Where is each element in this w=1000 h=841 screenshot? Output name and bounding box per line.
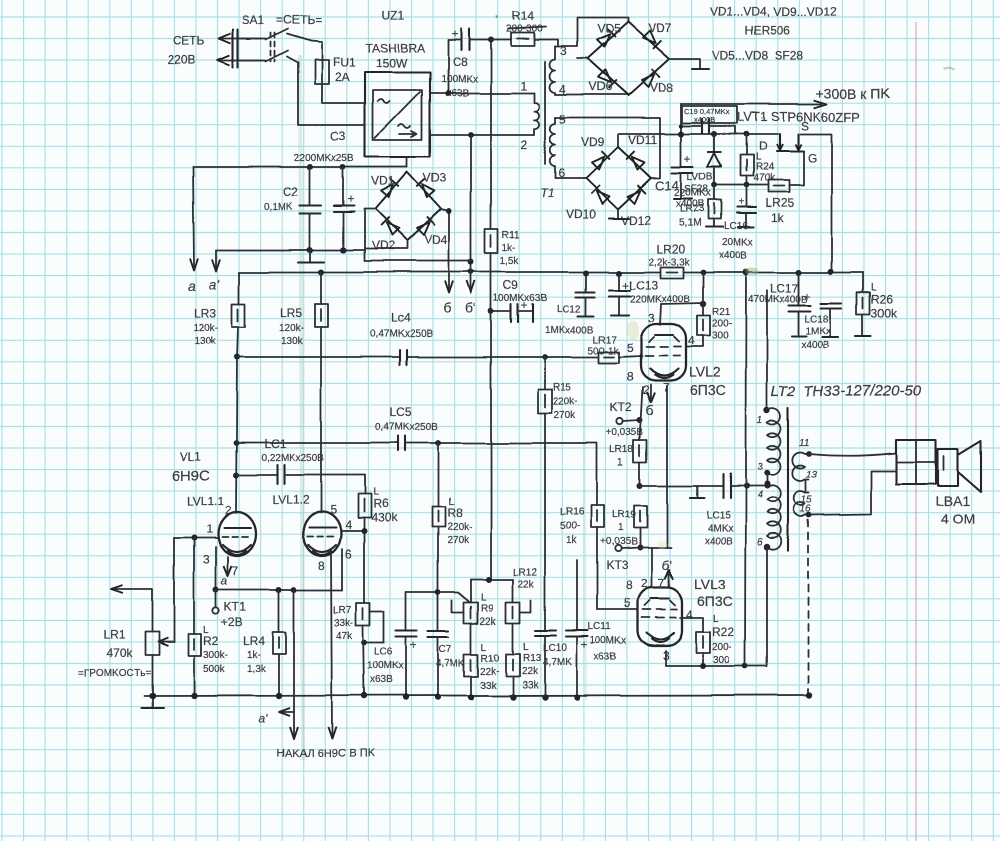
svg-text:+: + (684, 152, 691, 166)
rail node LR1 (149, 693, 155, 699)
svg-text:HAKAЛ 6H9C B ПK: HAKAЛ 6H9C B ПK (277, 748, 375, 760)
switch SA1 pole 1 (238, 29, 311, 41)
svg-text:R13: R13 (523, 653, 542, 664)
diode VD7 (642, 30, 661, 49)
svg-text:б': б' (465, 300, 476, 316)
svg-text:300: 300 (713, 655, 730, 666)
label C2 0,1мк (264, 185, 299, 213)
svg-text:1k: 1k (771, 211, 785, 225)
label LR23 5,1М (679, 204, 704, 229)
capacitor LC16 electrolytic (737, 185, 756, 227)
resistor R14 (511, 33, 534, 46)
svg-text:=СЕТЬ=: =СЕТЬ= (276, 13, 322, 27)
svg-text:LC5: LC5 (390, 405, 412, 419)
switch SA1 pole 2 (238, 51, 298, 63)
B+ vertical to y666 (745, 272, 746, 666)
resistor LR16 (591, 506, 604, 610)
svg-text:0,47MKx250B: 0,47MKx250B (375, 422, 438, 433)
label R26 300к (871, 282, 898, 320)
wire T1 pin5 to VD9-12 right (555, 118, 660, 178)
svg-text:100MKx: 100MKx (367, 661, 404, 672)
svg-text:1k-: 1k- (247, 650, 261, 661)
svg-text:C7: C7 (439, 644, 452, 655)
svg-text:LR19: LR19 (612, 510, 636, 521)
svg-text:HER506: HER506 (745, 24, 791, 38)
mosfet LVT1 (776, 134, 804, 185)
label C7 4,7мк (436, 644, 465, 669)
speaker LBA1 (938, 441, 981, 492)
svg-text:T1: T1 (540, 186, 554, 200)
T1 secondary winding 3-4 (550, 47, 556, 95)
svg-text:2200MKx25B: 2200MKx25B (294, 153, 354, 164)
node filament A start (291, 587, 297, 593)
node LC1 junction (233, 472, 239, 478)
svg-text:6H9C: 6H9C (172, 467, 211, 484)
svg-text:LBA1: LBA1 (936, 493, 970, 509)
svg-text:VD10: VD10 (566, 207, 596, 221)
svg-text:SA1: SA1 (242, 13, 265, 27)
wire LVL3 pin2 (651, 548, 653, 588)
node C3 bottom (340, 247, 346, 253)
node rail LC13 (616, 270, 622, 276)
converter UZ1 box (365, 72, 430, 157)
tube LVL1.2 (303, 512, 341, 556)
svg-text:200-: 200- (712, 642, 732, 653)
capacitor LC15 (723, 474, 767, 498)
svg-text:200-: 200- (712, 319, 732, 330)
svg-text:16: 16 (800, 504, 812, 515)
svg-text:VD7: VD7 (648, 21, 672, 35)
label FU1 2A (333, 55, 356, 84)
label LC1 0,22мкх250В (261, 437, 324, 464)
wire y486 to LC15 (640, 485, 722, 487)
stub tap y486 (690, 486, 704, 498)
paper speck 3 (761, 117, 763, 119)
label LR20 2,2к-3,3к (648, 242, 690, 268)
svg-text:VD9: VD9 (581, 135, 605, 149)
svg-text:R8: R8 (447, 506, 463, 520)
label LC13 220мкх400В (622, 278, 690, 305)
capacitor C7 (428, 592, 449, 697)
svg-text:x400B: x400B (802, 340, 831, 351)
svg-text:1k: 1k (566, 535, 578, 546)
green smudge C14 (657, 541, 667, 549)
grid wire y357 left (237, 356, 399, 358)
svg-text:a': a' (259, 712, 269, 726)
svg-text:2,2k-3,3k: 2,2k-3,3k (648, 257, 690, 268)
capacitor C12 (576, 273, 595, 316)
anode wire y666 (666, 663, 767, 669)
cathode node wire a (216, 589, 342, 591)
rail node LC10 (542, 694, 548, 700)
svg-text:VD1: VD1 (371, 174, 395, 188)
svg-text:D: D (758, 139, 767, 153)
LT2 secondary winding 15-16 (794, 492, 812, 518)
svg-text:LR7: LR7 (333, 605, 352, 616)
potentiometer LR1 (145, 590, 159, 696)
label LR5 120к-130к (279, 306, 304, 347)
node rail LC18 (828, 268, 834, 274)
diode VD4 (416, 217, 435, 236)
node b-prime y262 (468, 259, 474, 265)
svg-text:VD5: VD5 (597, 22, 621, 36)
svg-text:470MKx400B: 470MKx400B (748, 294, 808, 305)
svg-text:LVL3: LVL3 (694, 576, 726, 592)
diode LVDB (707, 134, 721, 185)
svg-text:270k: 270k (554, 410, 577, 421)
svg-text:LC16: LC16 (724, 221, 748, 232)
svg-text:2: 2 (521, 138, 528, 152)
svg-text:0,22MKx250B: 0,22MKx250B (261, 453, 324, 464)
svg-text:1: 1 (618, 523, 624, 534)
wire switch pole1 to fuse (311, 41, 322, 60)
svg-text:3: 3 (648, 311, 655, 325)
connector X1 plug bars (233, 30, 238, 68)
wire switch pole2 to UZ1 (298, 63, 365, 125)
wire rail left end to LR3 (238, 272, 240, 304)
capacitor LC10 (535, 610, 556, 697)
resistor LR4 (273, 590, 286, 696)
node rail b-prime (468, 269, 474, 275)
svg-text:5: 5 (330, 503, 337, 517)
label LR4 1к-1,3к (243, 634, 267, 675)
svg-text:3: 3 (203, 553, 210, 567)
svg-text:5,1M: 5,1M (679, 218, 701, 229)
svg-text:500-1k: 500-1k (588, 346, 620, 357)
svg-text:+2B: +2B (221, 615, 243, 629)
diode VD9 (591, 151, 610, 170)
capacitor LC17 electrolytic (789, 272, 811, 336)
svg-text:R26: R26 (871, 292, 893, 306)
wire UZ1 to T1 pin2 (430, 134, 534, 136)
label R9 22к (480, 592, 497, 627)
svg-text:1,3k: 1,3k (247, 664, 267, 675)
svg-text:8: 8 (318, 559, 325, 573)
svg-text:500k: 500k (203, 664, 226, 675)
svg-text:100MKx: 100MKx (590, 636, 627, 647)
label LC10 4,7мк (543, 643, 572, 668)
label LR1 470к громкость (78, 628, 151, 679)
long vertical wire C8 node down to R11 (490, 40, 492, 229)
label LBA1 4 Ом (936, 493, 975, 527)
mains arrow upper (219, 34, 262, 44)
svg-text:LC17: LC17 (770, 281, 799, 295)
label LT2 ТН33-127/220-50 (771, 383, 922, 400)
svg-text:LC1: LC1 (264, 437, 286, 451)
svg-text:KT3: KT3 (606, 559, 628, 573)
label LR7 33к-47к (333, 605, 353, 642)
svg-text:0,47MKx250B: 0,47MKx250B (370, 329, 433, 340)
node rail LC17 (796, 269, 802, 275)
ground symbol (141, 696, 163, 708)
resistor R24 (740, 134, 753, 185)
svg-text:R22: R22 (712, 625, 734, 639)
B+ rail y272 left part (239, 271, 660, 273)
node C2 top (307, 164, 313, 170)
svg-text:1k-: 1k- (502, 243, 516, 254)
resistor LR17 (599, 352, 619, 363)
paper speck 1 (496, 16, 499, 19)
label LR17 500-1к (588, 335, 620, 357)
label LR16 500-1к (560, 507, 584, 546)
svg-text:Lc4: Lc4 (391, 311, 411, 325)
wire C2C3 top (193, 166, 407, 168)
test point KT3 (600, 537, 643, 573)
svg-text:1: 1 (618, 458, 624, 469)
svg-text:R11: R11 (502, 230, 520, 241)
label R13 22к 33к (522, 642, 542, 691)
node rail LR5 (318, 269, 324, 275)
label LVL3 6П3С (694, 576, 733, 609)
transformer T1 primary winding (534, 93, 539, 135)
rail node C7 (435, 694, 441, 700)
diode VD8 (641, 69, 660, 88)
resistor LR3 (232, 304, 245, 357)
green smudge near node (745, 267, 759, 275)
svg-text:KT2: KT2 (610, 401, 632, 415)
wire y579 R9-LR12 (471, 576, 513, 582)
svg-text:+: + (410, 638, 417, 652)
svg-text:4 OM: 4 OM (941, 511, 975, 527)
svg-text:33k: 33k (480, 680, 497, 691)
svg-text:4: 4 (757, 490, 763, 501)
svg-text:LC6: LC6 (374, 647, 393, 658)
label R11 1к-1,5к (500, 230, 520, 267)
svg-text:130k: 130k (194, 336, 217, 347)
svg-text:СЕТЬ: СЕТЬ (173, 34, 205, 48)
wire top to UZ1 bottom (406, 158, 408, 167)
capacitor LC1 (236, 465, 365, 494)
svg-text:2A: 2A (335, 70, 350, 84)
svg-text:LR16: LR16 (560, 507, 584, 518)
svg-text:3: 3 (757, 462, 763, 473)
svg-text:б: б (443, 300, 451, 316)
svg-text:LR4: LR4 (243, 634, 265, 648)
T1 core (544, 62, 546, 164)
test point KT2 (606, 401, 644, 439)
svg-text:LVDB: LVDB (687, 172, 713, 183)
capacitor C9 (491, 298, 533, 322)
label C14 220мкх х400В (655, 178, 711, 210)
svg-text:130k: 130k (281, 336, 304, 347)
svg-text:6П3C: 6П3C (690, 382, 726, 398)
svg-text:LT2 TH33-127/220-50: LT2 TH33-127/220-50 (771, 383, 922, 400)
rail node R13 (510, 694, 516, 700)
fuse FU1 (315, 60, 329, 84)
wire y443 right to LR16 (405, 443, 597, 506)
svg-text:VD2: VD2 (371, 239, 395, 253)
svg-text:R15: R15 (553, 382, 572, 393)
node a (213, 574, 228, 593)
paper speck 2 (944, 69, 955, 71)
node gate wire (711, 182, 768, 188)
label LR3 120к-130к (193, 306, 218, 347)
resistor LR12 (506, 579, 520, 654)
diode VD6 (597, 70, 616, 89)
wire LC6 to R9 top (406, 592, 470, 602)
svg-text:L: L (481, 592, 487, 603)
svg-text:a: a (188, 277, 196, 293)
svg-text:220k-: 220k- (447, 522, 472, 533)
cathode wire LVL1.1 pin3 (215, 547, 217, 590)
node LR18 bottom (637, 483, 643, 489)
label LVL2 6П3С (689, 364, 726, 398)
label LC6 100мкх х63В (367, 647, 404, 686)
svg-text:7: 7 (658, 577, 665, 591)
svg-text:33k-: 33k- (334, 618, 353, 629)
svg-text:470k: 470k (106, 646, 133, 660)
resistor LR25 (768, 180, 789, 192)
resistor R13 (506, 654, 520, 697)
wire T1 pin3 to VD5-8 top (555, 18, 628, 47)
wire y443 left (236, 442, 397, 444)
wire VD5-8 left corner stub (577, 58, 587, 60)
svg-text:100MKx63B: 100MKx63B (493, 293, 548, 304)
resistor R15 (538, 354, 552, 610)
svg-text:x63B: x63B (594, 652, 617, 663)
LT2 primary winding 1-3 (767, 408, 780, 475)
svg-text:LR3: LR3 (194, 306, 216, 320)
wire VD1-4 right to b (441, 208, 452, 214)
paper crease mid (584, 360, 586, 700)
diode bridge VD9-VD12 diamond (586, 147, 651, 209)
diode VD10 (591, 185, 610, 204)
capacitor LC4 (400, 350, 407, 365)
output wire pin15-16 to terminal box (809, 471, 896, 515)
rail node LR4 (276, 693, 282, 699)
output wire pin11 to terminal box (809, 453, 896, 456)
resistor R2 (188, 538, 201, 696)
capacitor C14 electrolytic (672, 152, 693, 199)
wire VD9-12 top to LVT1 rail (618, 134, 777, 147)
capacitor LC11 electrolytic (566, 560, 588, 697)
svg-text:C8: C8 (452, 55, 468, 69)
label LC4 0,47мкх250В (370, 311, 433, 340)
diode VD5 (596, 29, 615, 48)
LVL3 filament b-prime arrow (662, 558, 673, 588)
filament column B from pin8 (328, 553, 336, 739)
svg-text:2: 2 (225, 503, 232, 517)
svg-text:4: 4 (686, 608, 693, 622)
svg-text:VD5...VD8 SF28: VD5...VD8 SF28 (712, 49, 804, 63)
label R15 220к-270к (553, 382, 578, 421)
svg-text:300: 300 (712, 331, 729, 342)
diode bridge VD1-VD4 diamond (375, 172, 441, 241)
svg-text:LVL1.2: LVL1.2 (272, 493, 309, 507)
label TASHIBRA 150W (366, 41, 425, 70)
label LR25 1к (765, 196, 794, 225)
wire LVL3 cathode pin3 (665, 651, 667, 666)
svg-text:1: 1 (520, 79, 527, 93)
label SA1 =СЕТЬ= (242, 13, 322, 27)
label C9 100мкх63В (493, 278, 548, 304)
B+ rail y272 right part (683, 271, 863, 273)
+300V to PC arrow (681, 100, 827, 108)
capacitor C19 box and symbol (681, 106, 737, 134)
rail node LR7 (361, 693, 367, 699)
diode VD12 (627, 185, 646, 204)
LT2 wire pin1 column (764, 290, 770, 413)
svg-text:LR25: LR25 (765, 196, 794, 210)
tube LVL3 (638, 588, 682, 646)
svg-text:470k: 470k (753, 173, 776, 184)
LT2 pin6 wire down (766, 547, 768, 666)
wire S to LC18 rail (800, 134, 832, 271)
svg-text:4,7MK: 4,7MK (543, 657, 572, 668)
filament b arrow (445, 211, 453, 293)
svg-text:C2: C2 (283, 185, 299, 199)
wire T1 pin6 to VD9-12 left (555, 177, 586, 179)
ground symbol low voltage (298, 250, 324, 262)
LT2 secondary winding 11-13 (792, 451, 812, 481)
svg-text:1: 1 (206, 522, 213, 536)
wire VD5-8 output terminal (669, 59, 709, 69)
node rail-C14 (678, 131, 684, 137)
svg-text:LC12: LC12 (557, 304, 581, 315)
svg-text:11: 11 (799, 438, 809, 449)
input arrow (110, 586, 152, 594)
svg-text:4: 4 (345, 518, 352, 532)
svg-text:VD11: VD11 (628, 133, 657, 147)
svg-text:1: 1 (757, 415, 763, 426)
wire R14 to T1 pin3 (534, 40, 558, 46)
node wire2 b-prime (468, 132, 474, 138)
svg-text:120k-: 120k- (279, 323, 304, 334)
diode VD11 (626, 151, 645, 170)
svg-text:47k: 47k (336, 631, 353, 642)
resistor LR19 (634, 506, 647, 548)
svg-text:6: 6 (757, 537, 763, 548)
svg-text:0,1MK: 0,1MK (264, 202, 293, 213)
LT2 core (787, 408, 789, 551)
capacitor C8 (448, 27, 491, 50)
svg-text:a': a' (209, 276, 221, 292)
wire LVL1.2 pin4 to R6 (341, 528, 367, 534)
label LC5 0,47мкх250В (375, 405, 438, 433)
wire +300V to C14 vertical (680, 104, 682, 167)
label R22 200-300 (712, 614, 734, 666)
svg-text:4,7MK: 4,7MK (436, 658, 465, 669)
label LR19 1 (612, 510, 636, 534)
svg-text:+0,035B: +0,035B (606, 428, 644, 439)
LT2 secondary link 13-15 (805, 480, 807, 493)
svg-text:L: L (481, 642, 487, 653)
svg-text:LC18: LC18 (805, 314, 829, 325)
label C3 2200мкх25В (294, 129, 354, 164)
label LR18 1 (610, 445, 634, 469)
tube LVL1.1 (218, 512, 256, 556)
svg-text:L: L (713, 614, 719, 625)
svg-text:R14: R14 (512, 9, 534, 23)
node C8-R14 (488, 37, 494, 43)
svg-text:S: S (801, 119, 809, 133)
svg-text:VD6: VD6 (588, 80, 612, 94)
label LC16 20мкх х400В (719, 221, 753, 261)
tube LVL2 (641, 324, 686, 381)
T1 secondary winding 5-6 (550, 118, 555, 178)
svg-text:LR12: LR12 (513, 567, 537, 578)
wire LR16 to LVL3 pin5 (597, 609, 638, 611)
capacitor LC6 electrolytic (396, 592, 417, 697)
wire C2C3 bottom (216, 249, 364, 251)
LT2 node y484 (764, 481, 770, 487)
mains arrow lower (218, 56, 262, 66)
diode VD3 (416, 179, 435, 198)
label R21 200-300 (712, 307, 732, 342)
node C2 bottom (307, 247, 313, 253)
svg-text:LC15: LC15 (706, 510, 730, 521)
LVL2 anode wire pin3 (660, 304, 661, 325)
